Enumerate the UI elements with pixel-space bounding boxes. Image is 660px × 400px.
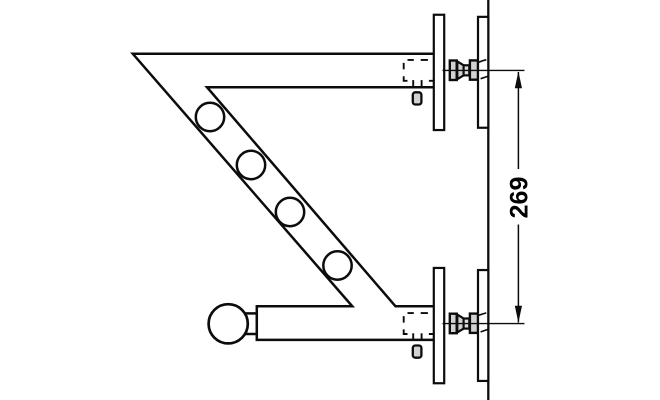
hook ball knob bbox=[209, 304, 248, 343]
upper rosette plate bbox=[478, 17, 488, 128]
lower fixing: hidden screw line b bbox=[421, 333, 423, 339]
lower screw head bbox=[470, 314, 478, 333]
lower screw taper bbox=[457, 315, 463, 333]
lower rail plate bbox=[434, 268, 444, 383]
upper screw head bbox=[470, 60, 478, 79]
lower fixing: hidden outline (dashed) bbox=[404, 313, 435, 334]
dimension line upper segment bbox=[517, 72, 519, 169]
upper fixing: grub screw tab bbox=[413, 92, 422, 104]
upper rail plate bbox=[434, 15, 444, 130]
upper fixing: hidden outline (dashed) bbox=[404, 60, 435, 81]
lower fixing: grub screw tab bbox=[413, 346, 422, 358]
rung circle 2 bbox=[237, 151, 265, 179]
upper centerline bbox=[443, 69, 525, 71]
lower screw flange bbox=[450, 314, 457, 334]
lower fixing: hidden screw line a bbox=[412, 333, 414, 339]
upper screw waist bbox=[464, 65, 470, 75]
upper break mark top bbox=[479, 60, 487, 63]
upper screw taper bbox=[457, 61, 463, 79]
dimension arrowhead up bbox=[515, 71, 522, 88]
lower rosette plate bbox=[478, 270, 488, 381]
svg-text:269: 269 bbox=[506, 177, 534, 219]
wall line bbox=[487, 0, 489, 400]
lower screw waist bbox=[464, 319, 470, 329]
upper fixing: hidden screw line a bbox=[412, 80, 414, 86]
rung circle 4 bbox=[323, 251, 351, 279]
dimension arrowhead down bbox=[515, 306, 522, 323]
rung circle 3 bbox=[276, 198, 304, 226]
Z-rail outline bbox=[133, 54, 437, 340]
upper break mark bottom bbox=[481, 76, 489, 79]
upper fixing: hidden screw line b bbox=[421, 80, 423, 86]
hook ball neck bbox=[243, 313, 258, 334]
rung circle 1 bbox=[196, 103, 224, 131]
upper screw flange bbox=[450, 61, 457, 81]
dimension line lower segment bbox=[517, 225, 519, 323]
lower break mark top bbox=[479, 313, 487, 316]
lower centerline bbox=[443, 323, 525, 325]
lower break mark bottom bbox=[481, 329, 489, 332]
